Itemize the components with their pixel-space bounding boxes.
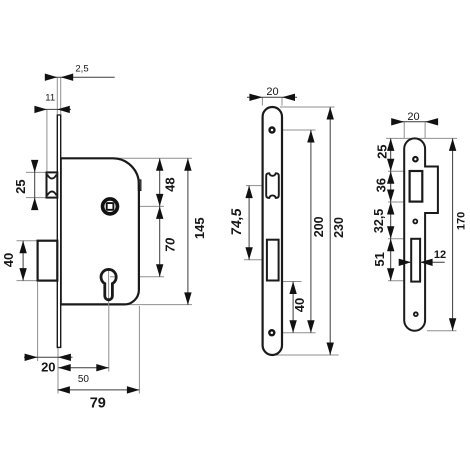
dimension 20 (deadbolt throw) — [24, 354, 73, 375]
deadbolt (edge view) — [38, 241, 58, 281]
extension line strike top (shared with 170) — [386, 137, 457, 139]
euro cylinder profile — [100, 268, 117, 301]
wire: extension line faceplate down — [57, 348, 59, 394]
wire: extension line body rear down — [138, 306, 140, 394]
svg-text:50: 50 — [78, 374, 90, 385]
deadbolt cutout — [267, 240, 279, 281]
wire: extension line deadbolt front down — [37, 282, 39, 361]
strike latch cutout — [410, 171, 423, 202]
wire: extension line cylinder centre — [117, 276, 164, 278]
svg-text:170: 170 — [455, 212, 467, 230]
extension line bolt cutout centre — [244, 259, 266, 261]
strike bolt cutout — [411, 239, 420, 282]
latch bevel arcs — [47, 175, 56, 196]
faceplate front — [263, 107, 282, 355]
strike screw hole top — [412, 156, 419, 163]
latch cutout — [266, 173, 279, 198]
extension tick latch cutout top — [388, 170, 405, 172]
faceplate bottom screw hole — [268, 329, 275, 336]
lock case body — [61, 158, 139, 304]
dimension 74,5 (latch to bolt centres) — [228, 186, 253, 260]
svg-text:145: 145 — [192, 217, 207, 239]
svg-text:25: 25 — [13, 179, 28, 193]
extension line strike bottom — [427, 330, 457, 332]
wire: extension line body bottom — [126, 304, 192, 306]
dimension 20 (strike width) — [391, 111, 438, 138]
faceplate (edge view) — [57, 115, 60, 347]
dimension 145 (case height) — [184, 158, 207, 305]
dimension 70 (follower to cylinder) — [156, 206, 178, 276]
notch on case rear edge — [138, 180, 140, 190]
strike plate outline — [404, 138, 438, 330]
dimension 40 (deadbolt height) — [1, 241, 36, 281]
extension line latch centre — [246, 185, 262, 187]
dimension 25 (latch height) — [13, 160, 46, 210]
wire: extension line cylinder axis down — [108, 306, 110, 372]
dimension 170 (strike length) — [449, 138, 467, 330]
svg-text:48: 48 — [163, 177, 178, 191]
dimension 50 (backset) — [58, 364, 109, 385]
dimension 40 (cutout bottom to screw) — [289, 282, 307, 333]
svg-text:51: 51 — [372, 252, 387, 266]
dimension 79 (case depth) — [57, 386, 139, 411]
wire: extension line body top — [112, 157, 192, 159]
extension tick latch cutout bottom — [388, 201, 405, 203]
svg-text:25: 25 — [375, 144, 390, 158]
extension tick bolt cutout top — [388, 238, 405, 240]
wire: extension line follower centre — [120, 205, 165, 207]
strike screw hole bottom — [413, 311, 419, 317]
svg-text:70: 70 — [163, 237, 178, 254]
follower ring — [103, 199, 118, 214]
dimension 2,5 (faceplate thickness) — [45, 63, 115, 114]
svg-text:32,5: 32,5 — [372, 209, 386, 233]
extension line top screw — [277, 129, 316, 131]
svg-text:200: 200 — [312, 216, 326, 237]
dimension chain 25/36/32,5/51 — [372, 138, 395, 280]
extension line bottom screw — [278, 332, 316, 334]
faceplate top screw hole — [268, 126, 275, 133]
svg-text:36: 36 — [373, 178, 388, 192]
dimension 20 (faceplate width) — [247, 86, 297, 106]
extension tick bolt cutout bottom — [388, 280, 405, 282]
dimension 230 (faceplate length) — [327, 107, 347, 355]
extension line plate top — [280, 106, 335, 108]
dimension 12 (bolt cutout width) — [399, 249, 446, 266]
dimension 200 (screw centres) — [307, 130, 326, 333]
svg-text:230: 230 — [332, 217, 346, 238]
svg-text:74,5: 74,5 — [228, 207, 244, 237]
svg-text:20: 20 — [41, 359, 55, 374]
dimension 11 (latch projection) — [34, 93, 71, 172]
euro cylinder outline — [101, 269, 116, 299]
extension line plate bottom — [272, 354, 339, 356]
strike screw hole middle — [412, 219, 418, 225]
dimension 48 (top to follower) — [156, 158, 178, 206]
svg-text:11: 11 — [45, 93, 55, 104]
svg-text:2,5: 2,5 — [75, 63, 88, 74]
svg-text:40: 40 — [292, 298, 307, 312]
svg-text:79: 79 — [90, 396, 106, 412]
svg-text:20: 20 — [407, 111, 419, 123]
wire: cylinder axis extension through keyhole — [108, 268, 110, 305]
svg-text:40: 40 — [1, 253, 16, 267]
extension line bolt cutout bottom — [282, 281, 301, 283]
follower square spindle hole — [107, 203, 114, 210]
latch bolt (edge view) — [47, 172, 58, 197]
svg-text:20: 20 — [266, 86, 278, 98]
svg-text:12: 12 — [434, 249, 446, 261]
